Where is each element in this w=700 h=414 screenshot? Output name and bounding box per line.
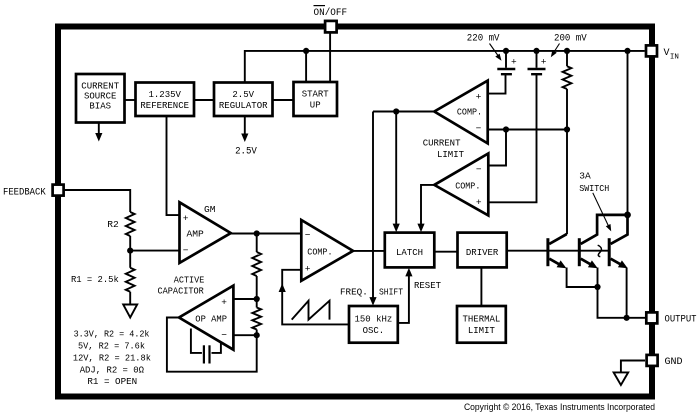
- svg-text:CAPACITOR: CAPACITOR: [158, 286, 205, 297]
- wire: junction down to compensation resistor: [256, 234, 258, 253]
- node: rail junction battery 220mV: [503, 48, 509, 54]
- svg-text:+: +: [221, 297, 227, 308]
- wire: emitter junction to output: [598, 287, 646, 318]
- wire: op amp output feedback loop: [167, 318, 257, 372]
- node: Q2/Q3 collector junction: [624, 212, 631, 219]
- svg-text:2.5V: 2.5V: [235, 147, 257, 158]
- node: comp1 output junction: [393, 108, 399, 114]
- wire: PWM comp + input from oscillator: [282, 270, 349, 325]
- svg-text:+: +: [305, 263, 311, 274]
- resistor compensation upper: [252, 252, 261, 276]
- svg-text:−: −: [476, 123, 482, 134]
- wire: GM amp output to PWM comp - input: [231, 233, 301, 235]
- 2.5V regulator U3: [214, 83, 273, 117]
- svg-text:LIMIT: LIMIT: [468, 326, 496, 336]
- node: rail junction switch: [624, 48, 630, 54]
- svg-text:CURRENT: CURRENT: [81, 82, 119, 92]
- wire: comp1 output left: [373, 111, 434, 113]
- svg-text:−: −: [476, 164, 482, 175]
- sawtooth waveform symbol: [292, 301, 330, 320]
- wire: freq shift line down to oscillator: [369, 112, 376, 306]
- svg-text:OP AMP: OP AMP: [195, 314, 227, 325]
- wire: comp1 junction down to latch: [393, 112, 400, 233]
- svg-text:LIMIT: LIMIT: [437, 149, 464, 160]
- node: op amp + junction: [254, 296, 260, 302]
- svg-text:CURRENT: CURRENT: [423, 137, 461, 148]
- op-amp GM AMP: [180, 202, 231, 263]
- pin VIN: [646, 45, 679, 61]
- node: Q3 emitter to output junction: [624, 315, 630, 321]
- wire: comp1 - input to sense line: [488, 129, 567, 131]
- svg-text:200 mV: 200 mV: [554, 33, 587, 44]
- node: Q1/Q2 emitter junction: [594, 284, 600, 290]
- svg-text:ADJ, R2 = 0Ω: ADJ, R2 = 0Ω: [80, 364, 145, 375]
- node: feedback divider junction: [127, 248, 133, 254]
- svg-text:SOURCE: SOURCE: [84, 91, 116, 101]
- svg-text:REGULATOR: REGULATOR: [219, 101, 268, 111]
- current source bias output arrow: [95, 123, 102, 142]
- svg-text:SWITCH: SWITCH: [579, 183, 609, 194]
- svg-text:5V, R2 = 7.6k: 5V, R2 = 7.6k: [78, 340, 145, 351]
- svg-text:RESET: RESET: [414, 280, 441, 291]
- node: sense junction: [564, 126, 570, 132]
- transistor Q1 emitter: [549, 259, 597, 287]
- svg-text:REFERENCE: REFERENCE: [140, 101, 189, 111]
- svg-text:+: +: [541, 57, 547, 68]
- svg-text:COMP.: COMP.: [455, 180, 480, 191]
- node: comp1 - junction: [503, 126, 509, 132]
- 1.235V reference U2: [136, 83, 195, 117]
- transistor Q3 base bar: [608, 238, 611, 266]
- transistor Q1 base bar: [546, 238, 549, 266]
- wire: R2 to junction: [129, 236, 131, 251]
- label 220 mV with pointer: [467, 33, 502, 61]
- svg-text:FEEDBACK: FEEDBACK: [3, 187, 46, 198]
- svg-text:3A: 3A: [579, 170, 591, 181]
- svg-text:150 kHz: 150 kHz: [355, 315, 393, 325]
- svg-text:220 mV: 220 mV: [467, 33, 500, 44]
- wire: reference to GM amp + input: [167, 116, 180, 215]
- svg-text:ACTIVE: ACTIVE: [174, 274, 205, 285]
- op-amp OP AMP (active capacitor): [179, 286, 233, 350]
- label 200 mV with pointer: [551, 33, 587, 57]
- svg-text:AMP: AMP: [187, 229, 205, 240]
- svg-text:FREQ.: FREQ.: [340, 286, 368, 297]
- latch block U5: [385, 233, 435, 268]
- transistor Q2 emitter: [581, 259, 598, 287]
- svg-text:Copyright © 2016, Texas Instru: Copyright © 2016, Texas Instruments Inco…: [464, 402, 655, 412]
- pin OUTPUT: [646, 312, 696, 325]
- wire: op amp + input: [233, 298, 256, 300]
- svg-text:+: +: [511, 57, 517, 68]
- wire: driver to thermal limit: [480, 267, 482, 306]
- svg-text:LATCH: LATCH: [396, 248, 423, 258]
- svg-text:COMP.: COMP.: [307, 247, 332, 258]
- wire: comp1 - junction down to comp2 - input: [488, 130, 506, 166]
- wire: feedback pin to R2: [65, 190, 131, 212]
- svg-text:R1 = OPEN: R1 = OPEN: [87, 376, 137, 387]
- wire: ON/OFF pin to start up: [329, 34, 331, 83]
- ground open arrow below R1: [123, 305, 137, 318]
- ground symbol open triangle: [614, 372, 629, 385]
- resistor current sense: [563, 51, 572, 130]
- transistor Q3 emitter: [611, 259, 628, 318]
- battery 200 mV: [528, 51, 547, 74]
- wire: junction to GM amp - input: [130, 250, 179, 252]
- wire: regulator to start up: [273, 99, 294, 101]
- svg-text:+: +: [183, 213, 189, 224]
- battery 220 mV: [497, 51, 517, 74]
- svg-text:GM: GM: [204, 204, 216, 215]
- svg-text:COMP.: COMP.: [457, 107, 482, 118]
- svg-text:IN: IN: [670, 54, 679, 62]
- wire: battery 220mV to comp1 + input: [488, 74, 506, 93]
- svg-text:OUTPUT: OUTPUT: [665, 314, 697, 325]
- wire: driver output to switch bases: [507, 250, 610, 252]
- svg-text:−: −: [305, 230, 311, 241]
- wire: comp2 output down to latch: [417, 185, 434, 232]
- svg-text:2.5V: 2.5V: [232, 90, 254, 100]
- label 3A SWITCH with pointer: [579, 170, 611, 231]
- svg-text:THERMAL: THERMAL: [463, 315, 501, 325]
- outer border frame: [58, 27, 652, 397]
- svg-text:R2: R2: [107, 219, 119, 230]
- current source bias U1: [76, 74, 125, 123]
- thermal limit block U7: [457, 306, 506, 343]
- svg-text:1.235V: 1.235V: [149, 90, 182, 100]
- wire: regulator top to VIN rail: [245, 51, 645, 83]
- svg-text:12V, R2 = 21.8k: 12V, R2 = 21.8k: [73, 352, 151, 363]
- transistor Q2 collector: [581, 215, 628, 244]
- comparator COMP1 current limit: [434, 81, 487, 144]
- 2.5V regulator output arrow: [241, 116, 248, 142]
- wire: reference to 2.5V regulator: [194, 99, 214, 101]
- node: rail to start up junction: [303, 48, 309, 54]
- transistor Q2 base bar: [578, 238, 581, 266]
- svg-text:OSC.: OSC.: [363, 326, 385, 336]
- wire: latch to driver: [434, 251, 457, 253]
- wire: gnd pin to ground symbol: [621, 361, 645, 373]
- svg-text:GND: GND: [665, 357, 683, 368]
- wire: oscillator reset to latch: [398, 268, 413, 323]
- resistor R2: [126, 212, 135, 236]
- svg-text:UP: UP: [310, 101, 321, 111]
- svg-text:R1 = 2.5k: R1 = 2.5k: [71, 274, 119, 285]
- svg-text:ON/OFF: ON/OFF: [314, 7, 348, 19]
- svg-text:DRIVER: DRIVER: [466, 248, 499, 258]
- svg-text:START: START: [302, 90, 330, 100]
- svg-text:−: −: [221, 329, 227, 340]
- pin FEEDBACK: [3, 185, 64, 199]
- wire: battery 200mV to comp2 + input: [488, 74, 536, 202]
- svg-text:3.3V, R2 = 4.2k: 3.3V, R2 = 4.2k: [74, 328, 150, 339]
- wire: rail junction down to start up: [305, 51, 307, 82]
- svg-text:V: V: [664, 48, 670, 59]
- resistor R1: [126, 251, 135, 305]
- transistor Q1 collector: [549, 234, 566, 244]
- value table R2/R1 options: [73, 328, 151, 387]
- svg-text:−: −: [183, 245, 189, 256]
- transistor Q3 collector: [611, 215, 628, 244]
- capacitor C (active capacitor): [191, 329, 221, 364]
- wire: collector junction to VIN rail: [627, 51, 629, 215]
- svg-text:+: +: [476, 92, 482, 103]
- node: rail junction battery 200mV: [533, 48, 539, 54]
- comparator PWM COMP: [301, 220, 353, 281]
- svg-text:BIAS: BIAS: [89, 102, 111, 112]
- node: GM output junction: [254, 230, 260, 236]
- pin ON/OFF: [314, 6, 348, 33]
- resistor compensation lower: [252, 299, 261, 335]
- svg-text:+: +: [476, 197, 482, 208]
- comparator COMP2 current limit: [434, 154, 488, 216]
- wire: op amp - input: [233, 334, 256, 336]
- node: op amp - junction: [254, 332, 260, 338]
- svg-text:SHIFT: SHIFT: [379, 286, 403, 297]
- node: rail junction sense resistor: [564, 48, 570, 54]
- squiggle parallel transistors mark: [598, 245, 602, 256]
- oscillator block 150 kHz OSC: [349, 306, 398, 343]
- wire: PWM comp output to latch: [353, 250, 385, 252]
- start up block U4: [294, 82, 338, 116]
- arrowhead up on oscillator feed: [279, 284, 286, 293]
- pin GND: [647, 355, 683, 368]
- wire: current source bias to 1.235V reference: [124, 99, 136, 101]
- wire: sense junction down to T1 collector: [549, 130, 567, 244]
- driver block U6: [458, 233, 507, 268]
